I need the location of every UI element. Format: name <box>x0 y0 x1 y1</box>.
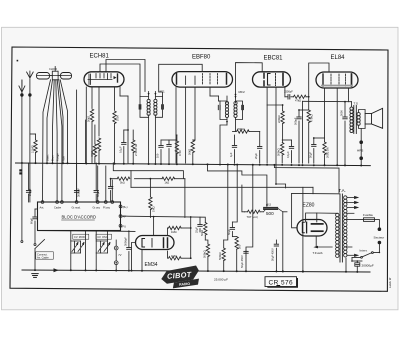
tuner pin Ant <box>41 201 44 204</box>
ECH81 cathode wires down <box>86 87 128 163</box>
cathode resistor 200ohm 1W <box>323 142 330 165</box>
AF coupling cap 1uF <box>229 135 237 163</box>
coupling cap 1500pF <box>284 90 294 100</box>
AF return line <box>113 163 183 188</box>
svg-text:Gr.osc: Gr.osc <box>93 206 101 210</box>
svg-text:2,2MΩ: 2,2MΩ <box>31 145 35 153</box>
IF2 secondary trim cap <box>242 105 244 109</box>
trimmer label CV OSC <box>96 234 112 239</box>
antenna input line 2 (aerial) <box>27 71 34 202</box>
tuner block box <box>38 202 121 231</box>
junction dots ground bus <box>34 269 358 273</box>
AVC cap 0.05 <box>108 187 112 189</box>
bottom ground bus <box>22 270 370 272</box>
grid leak 470k <box>307 97 314 163</box>
speaker voice coil wires <box>359 110 366 166</box>
svg-text:20μF: 20μF <box>254 153 258 159</box>
IF transformer 2 frame wires <box>219 95 243 132</box>
svg-text:Gr.mod.: Gr.mod. <box>72 206 82 210</box>
antenna choke center core <box>49 67 61 80</box>
EZ80 heater loop <box>292 193 338 227</box>
svg-text:200pF: 200pF <box>28 188 32 196</box>
dial lamp terminal bottom <box>114 261 118 265</box>
junction dots main bus <box>21 162 362 167</box>
svg-text:Fusible: Fusible <box>363 213 373 217</box>
svg-text:EBC81: EBC81 <box>264 56 284 62</box>
svg-text:220kΩ: 220kΩ <box>277 115 281 123</box>
model box CR 576 <box>265 277 297 287</box>
tuner side pin CAF <box>119 205 122 208</box>
svg-text:Interr.: Interr. <box>360 249 368 253</box>
chassis terminal pair <box>19 169 22 171</box>
grid cap 200pF <box>26 163 32 202</box>
svg-text:CV. MOD.: CV. MOD. <box>74 235 86 239</box>
svg-text:25.000 μF: 25.000 μF <box>214 278 228 282</box>
antenna choke right barrel <box>61 73 72 80</box>
svg-text:470: 470 <box>94 147 98 152</box>
B+ plate rail <box>303 101 352 163</box>
svg-text:EBF80: EBF80 <box>192 55 211 61</box>
svg-text:1000: 1000 <box>116 115 120 121</box>
junction dots misc <box>110 94 381 273</box>
tone cap 500pF <box>294 110 309 163</box>
svg-text:25μF: 25μF <box>195 227 199 233</box>
oscillator grid resistor 1000 <box>113 111 120 163</box>
padding cap 50pF <box>94 163 100 202</box>
primary tap to fuse <box>347 219 364 221</box>
IF1 primary trim cap <box>139 105 141 109</box>
AVC resistor 2.2M <box>30 134 37 163</box>
svg-text:3000pF: 3000pF <box>77 188 81 197</box>
svg-text:Rouge: Rouge <box>56 153 60 161</box>
svg-text:20000μF: 20000μF <box>362 264 374 268</box>
trimmer wires below tuner <box>71 231 108 271</box>
svg-text:BLOC D'ACCORD: BLOC D'ACCORD <box>62 215 97 220</box>
filter cap 50uF 450V second <box>270 240 278 272</box>
svg-text:Noir: Noir <box>62 156 66 161</box>
svg-text:50pF: 50pF <box>96 191 100 197</box>
svg-text:500: 500 <box>266 211 274 216</box>
svg-text:2700Ω 1W: 2700Ω 1W <box>134 143 138 156</box>
AVC resistor 5k <box>117 177 130 185</box>
svg-text:Cadre: Cadre <box>54 206 62 210</box>
speaker <box>365 108 383 128</box>
cathode bypass 50uF <box>308 138 324 163</box>
IF2 primary coil <box>225 102 228 118</box>
svg-text:576: 576 <box>281 280 293 287</box>
svg-text:EL84: EL84 <box>331 55 346 61</box>
tuner pin Gr mod <box>75 201 78 204</box>
svg-text:500kΩ: 500kΩ <box>277 148 281 156</box>
svg-text:CV. OSC.: CV. OSC. <box>97 235 108 239</box>
svg-text:1MΩ: 1MΩ <box>151 206 155 212</box>
registration dot <box>17 60 19 62</box>
EBF80 grid return wire <box>159 64 203 96</box>
padding cap 3000pF <box>74 163 80 202</box>
IF2 tuning arrows <box>226 96 237 124</box>
screen resistor 27k 1W <box>132 130 139 163</box>
svg-text:50μF: 50μF <box>308 152 312 158</box>
chassis ground symbol <box>32 274 38 278</box>
antenna choke axis <box>37 75 72 77</box>
svg-text:Brun: Brun <box>51 155 55 161</box>
svg-text:50kΩ: 50kΩ <box>200 230 204 236</box>
tuner side pin FU <box>119 224 122 227</box>
svg-text:HPS: HPS <box>357 149 363 153</box>
EBC81 pin wires down <box>267 88 285 185</box>
tube EL84 electrodes <box>322 74 352 86</box>
coil feeder wires fanning to tuner block <box>43 80 113 202</box>
svg-text:Ant.: Ant. <box>40 206 45 210</box>
AF takeoff rail <box>122 216 205 258</box>
svg-text:50μF: 50μF <box>227 229 231 235</box>
mains filter cap 20000 <box>352 261 362 272</box>
tuner pin Pl osc <box>104 201 107 204</box>
AVC line <box>111 179 185 218</box>
series antenna cap 60pF <box>30 209 38 243</box>
fuse <box>364 218 380 228</box>
trimmer label CV MOD <box>73 234 89 239</box>
AVC caps near EBF80 <box>156 140 164 163</box>
svg-text:Lamb. W: Lamb. W <box>388 277 392 288</box>
svg-text:1μF: 1μF <box>229 152 233 157</box>
tone cap 5000pF <box>340 102 348 166</box>
svg-text:200kΩ: 200kΩ <box>237 127 245 131</box>
power transformer HT secondary <box>344 196 347 257</box>
transformer ground leg <box>346 258 352 273</box>
EZ80 electrodes <box>302 222 323 233</box>
IF1 tuning arrows <box>148 93 157 96</box>
tube EL84 envelope <box>316 72 358 88</box>
svg-text:500kΩ: 500kΩ <box>218 252 222 260</box>
decoupling cap near EBC81 <box>282 140 293 163</box>
grid stopper 47k <box>294 95 309 102</box>
plate load 220k <box>267 105 284 142</box>
IF gain resistor 50k <box>187 140 195 163</box>
detector resistor 50k vertical <box>200 218 208 244</box>
EM34 grid resistor 1M lower <box>168 251 191 260</box>
svg-text:0,1μF: 0,1μF <box>286 151 290 158</box>
AVC resistor 1k <box>162 177 175 185</box>
svg-text:(B+): (B+) <box>123 205 128 209</box>
svg-text:500kΩ: 500kΩ <box>202 250 206 258</box>
output transformer primary <box>350 102 353 133</box>
decoupling resistor 500k <box>277 143 284 164</box>
tube EZ80 envelope <box>297 220 327 237</box>
svg-text:Pl.osc: Pl.osc <box>103 206 111 210</box>
model box shadow <box>267 285 299 288</box>
EM34 cathode wire <box>132 243 143 272</box>
svg-text:4700: 4700 <box>178 150 182 156</box>
svg-text:50μF 450V: 50μF 450V <box>270 248 274 261</box>
antenna terminal dot 1 <box>20 93 23 96</box>
cathode cap 50uF mid <box>227 165 237 237</box>
svg-text:1MΩ: 1MΩ <box>171 254 177 258</box>
mains terminal bottom <box>378 241 382 245</box>
EM34 tuning indicator envelope <box>136 236 175 250</box>
svg-text:0,5: 0,5 <box>267 203 271 207</box>
EM34 target resistor 1M upper <box>168 226 191 235</box>
bias resistor 470 <box>94 138 101 163</box>
dial lamp wires <box>115 240 117 271</box>
mains switch <box>352 244 379 258</box>
grid resistor 500k mid <box>218 165 228 271</box>
svg-text:50kΩ: 50kΩ <box>187 149 191 155</box>
svg-text:TOT (vol.): TOT (vol.) <box>247 215 259 219</box>
svg-text:An. Cadre: An. Cadre <box>37 256 49 260</box>
tuner side pin AF <box>119 215 122 218</box>
EL84 pin wires down <box>325 88 349 165</box>
ECH81 grid top wire <box>100 60 145 97</box>
cathode resistor 500 mid <box>232 237 241 272</box>
svg-text:5kΩ: 5kΩ <box>120 181 125 185</box>
svg-text:CHO 6: CHO 6 <box>49 67 57 71</box>
svg-text:500pF: 500pF <box>294 117 298 125</box>
svg-text:1kΩ: 1kΩ <box>165 181 170 185</box>
trimmer arrows <box>72 242 110 251</box>
ground drop from B+ rail area <box>302 187 304 271</box>
IF transformer 1 frame wires <box>140 92 163 164</box>
ground bus arrow <box>54 268 59 272</box>
tube EBF80 electrodes <box>177 74 227 85</box>
tuner pin Gr osc <box>96 201 99 204</box>
IF2 B+ feed wire <box>220 63 262 163</box>
svg-text:7V: 7V <box>118 253 121 257</box>
decoupling cap 0.1uF <box>118 130 128 163</box>
output transformer secondary <box>357 113 360 126</box>
power transformer core <box>340 194 342 262</box>
svg-text:1500pF: 1500pF <box>284 90 293 94</box>
svg-text:ECH81: ECH81 <box>90 54 110 60</box>
volume potentiometer body <box>245 205 288 272</box>
oscillator coil resistor 47k <box>90 125 97 163</box>
main distribution bus <box>16 163 371 166</box>
svg-text:50μF 450V: 50μF 450V <box>240 255 244 268</box>
svg-text:T.Fusib: T.Fusib <box>313 251 323 255</box>
svg-text:5000: 5000 <box>340 110 344 116</box>
svg-text:‗: ‗ <box>276 280 281 287</box>
IF1 secondary coil <box>154 99 157 115</box>
svg-text:3000pF: 3000pF <box>123 237 127 246</box>
cathode arrow <box>313 246 318 249</box>
svg-text:470kΩ: 470kΩ <box>310 114 314 122</box>
antenna choke left barrel <box>37 73 50 80</box>
IF1 primary coil <box>147 99 150 115</box>
svg-text:T.S: T.S <box>354 102 358 106</box>
switch label box Commut <box>36 252 54 260</box>
tuner bottom rail <box>38 230 136 233</box>
svg-text:1MΩ: 1MΩ <box>171 230 177 234</box>
antenna terminal dot 2 <box>28 93 31 96</box>
svg-text:EZ80: EZ80 <box>303 203 315 209</box>
EZ80 plate wires <box>306 213 338 222</box>
IF1 secondary trim cap <box>162 105 164 109</box>
svg-text:47kΩ: 47kΩ <box>295 99 301 103</box>
grid resistor 1M <box>149 197 156 218</box>
svg-text:Secteur: Secteur <box>374 236 385 240</box>
mains terminal top <box>378 227 382 231</box>
svg-text:500: 500 <box>238 244 242 249</box>
antenna input line 1 <box>19 80 25 240</box>
dial lamp terminal top <box>114 246 118 250</box>
tube ECH81 electrodes <box>88 74 118 85</box>
EZ80 cathode output <box>316 236 332 247</box>
EBF80 pin wires down <box>176 88 219 164</box>
IF2 secondary coil <box>234 102 237 118</box>
CIBOT logo <box>160 265 199 284</box>
svg-text:0,1μF: 0,1μF <box>118 146 122 153</box>
filter cap 50uF 450V first <box>240 165 253 271</box>
diode load resistor 200k <box>233 127 260 146</box>
volume return resistor 500k <box>202 244 209 271</box>
tube ECH81 envelope <box>84 72 124 87</box>
schematic border frame <box>10 47 388 291</box>
tube EBC81 envelope <box>253 72 291 87</box>
tube EBF80 envelope <box>172 72 233 88</box>
EM34 electrodes <box>142 238 168 248</box>
svg-text:50kΩ: 50kΩ <box>87 116 91 122</box>
cathode cap 20uF <box>254 147 262 164</box>
svg-text:EM34: EM34 <box>145 262 158 268</box>
svg-text:MF1: MF1 <box>159 90 165 94</box>
AF coupling cap 25uF <box>195 217 203 233</box>
svg-text:Blanc: Blanc <box>46 154 50 161</box>
cathode resistor EBF80 4700 <box>175 135 182 163</box>
tube EBC81 electrodes <box>264 74 283 86</box>
HPS terminal top <box>359 140 363 144</box>
HPS terminal bottom <box>359 156 363 160</box>
svg-text:T.A.: T.A. <box>339 188 346 193</box>
svg-text:60pF: 60pF <box>30 218 34 224</box>
svg-text:FU: FU <box>123 224 127 228</box>
cathode resistor 50k <box>87 109 94 163</box>
power transformer primary winding <box>336 213 339 257</box>
output transformer core <box>354 106 357 134</box>
EL84 grid feed wire <box>309 63 329 97</box>
antenna selector switch <box>21 240 45 271</box>
svg-text:200Ω 1W: 200Ω 1W <box>326 147 330 158</box>
CIBOT logo radio bar <box>172 279 199 289</box>
heater drop wire <box>312 187 314 193</box>
cathode cap EBF80 <box>161 140 176 163</box>
routing wire to volume pot <box>131 164 313 211</box>
tuner pin Cadre <box>56 201 59 204</box>
svg-text:100: 100 <box>156 153 160 158</box>
heater cap 3000pF <box>123 231 131 271</box>
IF2 primary trim cap <box>218 105 220 109</box>
B+ feed to TA <box>274 165 339 194</box>
transformer taps <box>347 196 358 256</box>
svg-text:MF2: MF2 <box>239 90 245 94</box>
